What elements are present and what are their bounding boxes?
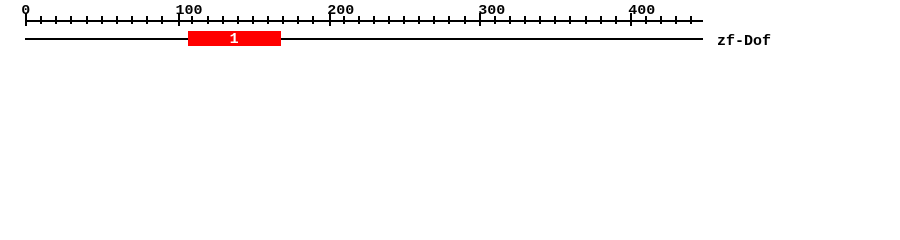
ruler major tick 100 <box>178 13 180 26</box>
sequence line <box>25 38 703 40</box>
ruler axis line <box>25 20 703 22</box>
ruler major tick 400 <box>630 13 632 26</box>
domain number 1 <box>230 32 239 47</box>
ruler major tick 300 <box>479 13 481 26</box>
ruler label 300 <box>478 4 505 18</box>
ruler major tick 0 <box>25 13 27 26</box>
ruler major tick 200 <box>329 13 331 26</box>
domain box 1 (zf-Dof, red) <box>188 31 281 46</box>
ruler minor ticks (every 10 residues) <box>0 0 900 1</box>
ruler label 200 <box>327 4 354 18</box>
ruler label 100 <box>176 4 203 18</box>
ruler label 400 <box>628 4 655 18</box>
label zf-Dof <box>717 34 771 49</box>
ruler label 0 <box>21 4 30 18</box>
